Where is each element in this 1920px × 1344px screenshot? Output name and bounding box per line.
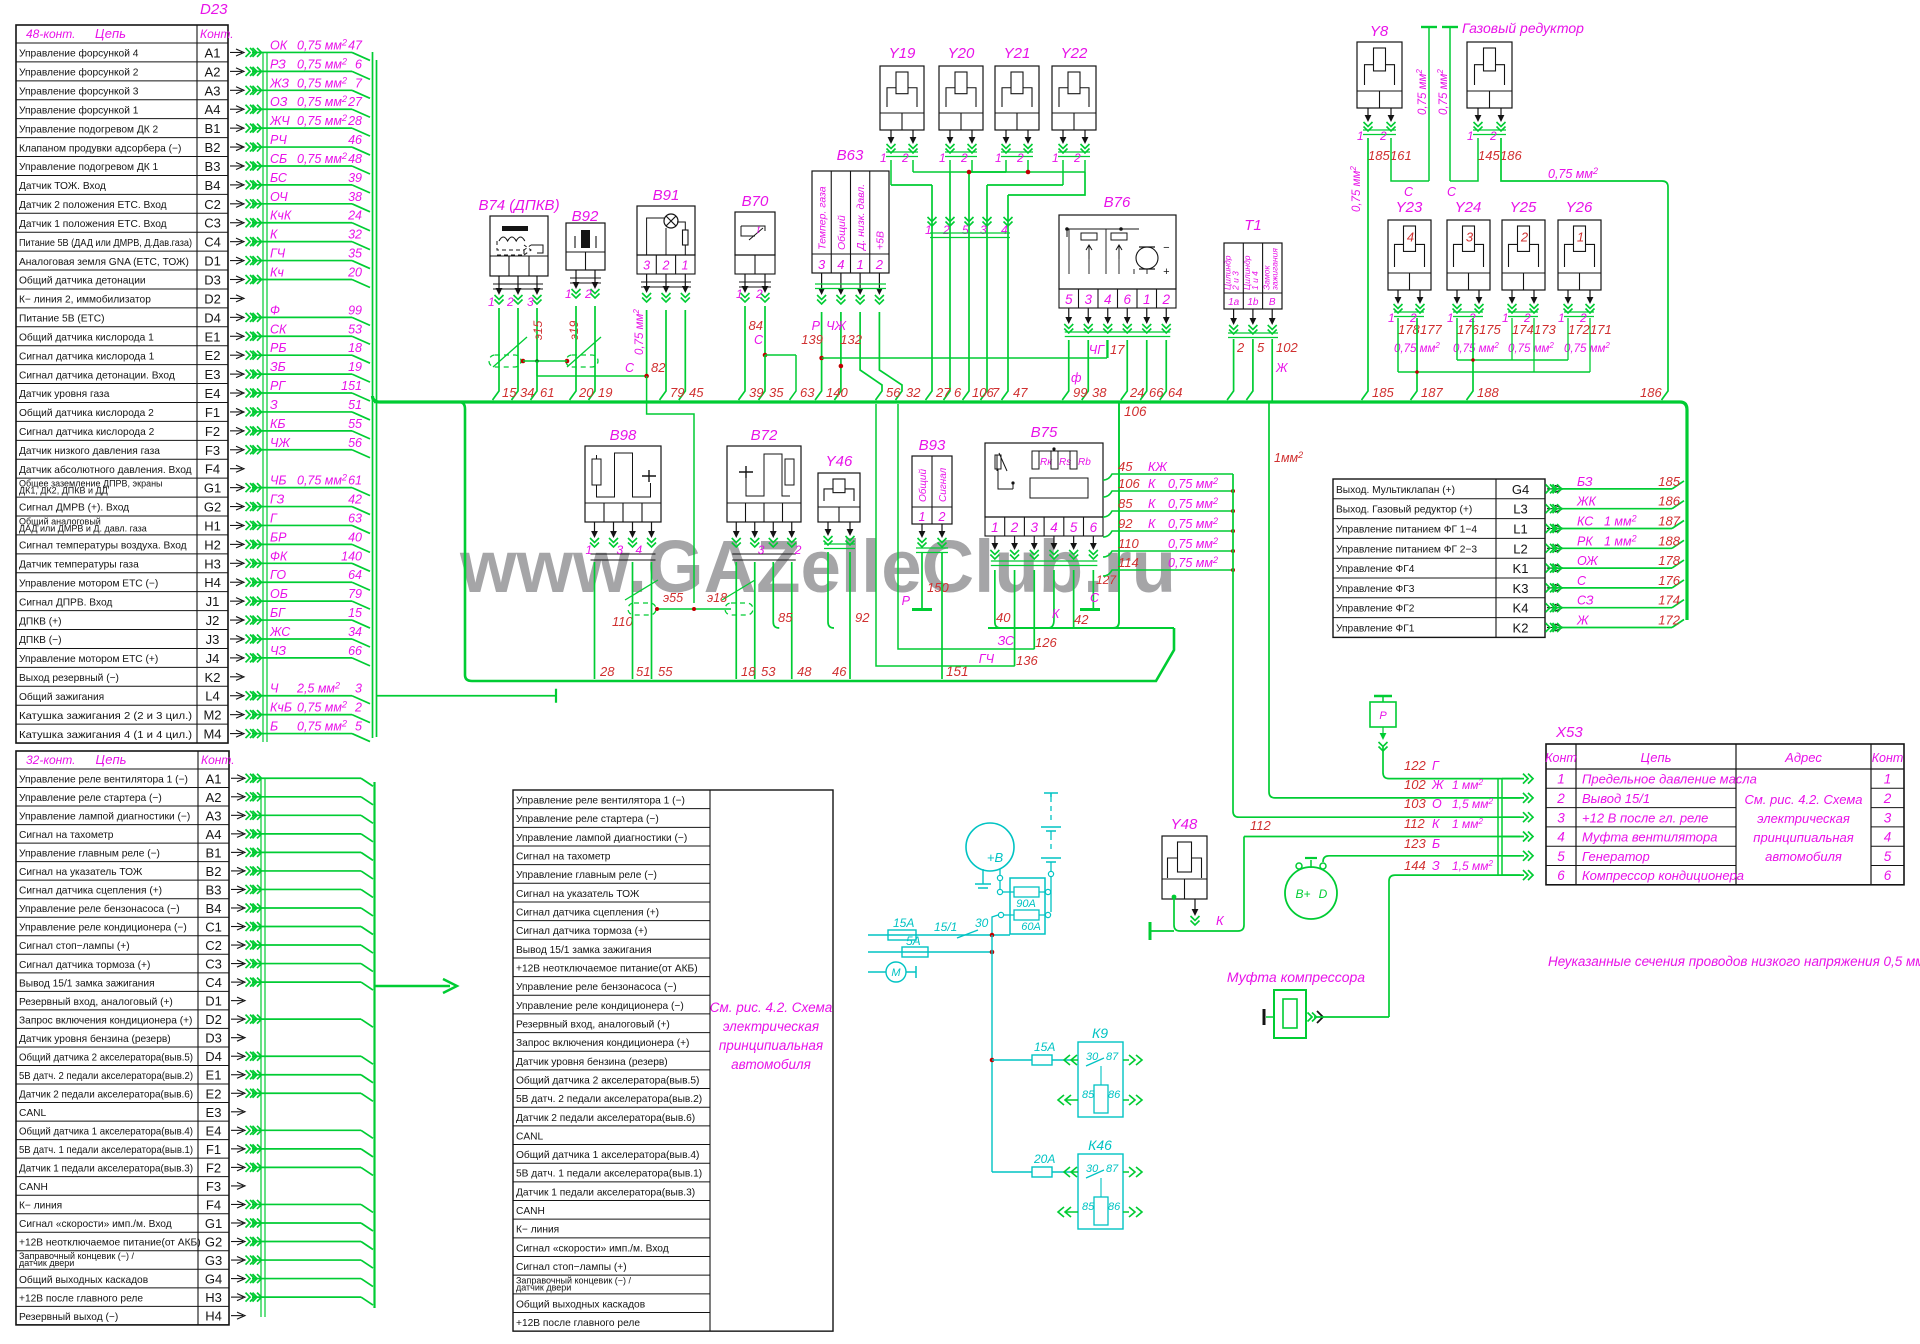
svg-text:27: 27: [347, 95, 363, 109]
svg-text:48: 48: [797, 664, 812, 679]
svg-text:+12В неотключаемое питание(от: +12В неотключаемое питание(от АКБ): [19, 1238, 201, 1249]
svg-text:1: 1: [1143, 292, 1151, 307]
svg-text:D2: D2: [204, 291, 221, 306]
svg-text:5: 5: [1257, 340, 1265, 355]
svg-text:Управление лампой диагностики: Управление лампой диагностики (−): [19, 812, 190, 823]
svg-text:РБ: РБ: [270, 341, 286, 355]
svg-text:34: 34: [520, 385, 534, 400]
main cyan vertical: [991, 935, 993, 1172]
svg-text:Y23: Y23: [1396, 199, 1423, 216]
svg-text:32-конт.: 32-конт.: [26, 753, 75, 767]
svg-text:Управление реле стартера (−): Управление реле стартера (−): [19, 793, 162, 804]
svg-text:D1: D1: [204, 254, 221, 269]
svg-text:61: 61: [540, 385, 554, 400]
svg-text:Р: Р: [902, 594, 911, 608]
relay K9: [992, 1059, 1072, 1061]
svg-text:Y20: Y20: [948, 45, 975, 62]
svg-text:H3: H3: [204, 556, 221, 571]
svg-text:51: 51: [636, 664, 650, 679]
gas injector Y25: [1502, 220, 1545, 290]
svg-text:К: К: [1216, 913, 1225, 928]
svg-text:38: 38: [1092, 385, 1107, 400]
svg-text:E2: E2: [206, 1086, 222, 1101]
svg-text:Резервный вход, аналоговый (+): Резервный вход, аналоговый (+): [516, 1019, 670, 1030]
svg-text:0,75 мм2: 0,75 мм2: [297, 700, 347, 715]
svg-text:0,75 мм2: 0,75 мм2: [297, 113, 347, 128]
B92 wires to bus: [570, 306, 577, 400]
svg-text:A4: A4: [205, 102, 221, 117]
ground (top, left): [1428, 27, 1430, 181]
svg-text:К− линия 2, иммобилизатор: К− линия 2, иммобилизатор: [19, 294, 151, 306]
svg-text:4: 4: [837, 257, 844, 272]
svg-text:87: 87: [1106, 1163, 1119, 1175]
svg-text:Датчик низкого давления газа: Датчик низкого давления газа: [19, 446, 160, 457]
svg-text:Датчик ТОЖ. Вход: Датчик ТОЖ. Вход: [19, 181, 106, 192]
svg-text:4: 4: [1884, 830, 1892, 845]
Y23-26 harness to bus: [1411, 318, 1418, 400]
svg-text:47: 47: [348, 38, 363, 52]
svg-text:зажигания: зажигания: [1269, 248, 1279, 291]
svg-text:Y22: Y22: [1061, 45, 1088, 62]
svg-text:A1: A1: [205, 45, 221, 60]
svg-text:Сигнал датчика кислорода 1: Сигнал датчика кислорода 1: [19, 351, 155, 362]
svg-text:C3: C3: [205, 957, 222, 972]
B91 wires to bus: [660, 310, 667, 400]
wire 102 Ж 1mm (to X53-2): [1271, 339, 1273, 402]
svg-text:46: 46: [832, 664, 847, 679]
svg-text:92: 92: [1118, 516, 1133, 531]
svg-text:Д. низк. давл.: Д. низк. давл.: [855, 184, 867, 251]
svg-text:60А: 60А: [1021, 921, 1041, 933]
svg-text:Датчик 1 педали акселератора(в: Датчик 1 педали акселератора(выв.3): [516, 1187, 695, 1198]
svg-text:Управление мотором ЕТС (−): Управление мотором ЕТС (−): [19, 578, 158, 589]
svg-text:Запрос включения кондиционера: Запрос включения кондиционера (+): [516, 1038, 689, 1049]
svg-text:+12В после главного реле: +12В после главного реле: [516, 1318, 640, 1329]
svg-text:3: 3: [527, 295, 534, 309]
svg-text:Сигнал датчика тормоза (+): Сигнал датчика тормоза (+): [516, 926, 647, 937]
svg-text:H2: H2: [204, 537, 221, 552]
svg-text:61: 61: [348, 474, 362, 488]
svg-text:1а: 1а: [1228, 297, 1240, 308]
svg-text:2: 2: [584, 287, 592, 301]
svg-text:87: 87: [1106, 1051, 1119, 1063]
reference table (see fig. 4.2): [513, 790, 833, 1331]
svg-text:M2: M2: [203, 708, 221, 723]
svg-text:90А: 90А: [1016, 898, 1036, 910]
oil pressure sensor P: [1374, 695, 1392, 698]
svg-text:92: 92: [855, 610, 870, 625]
svg-text:Питание 5В (ДАД или ДМРВ, Д.Да: Питание 5В (ДАД или ДМРВ, Д.Дав.газа): [19, 238, 192, 249]
svg-text:D4: D4: [205, 1049, 222, 1064]
svg-text:E3: E3: [205, 367, 221, 382]
svg-text:G1: G1: [205, 1216, 222, 1231]
svg-text:15: 15: [502, 385, 517, 400]
svg-text:32: 32: [348, 228, 362, 242]
svg-text:+: +: [1163, 266, 1170, 278]
svg-text:2: 2: [354, 701, 362, 715]
svg-text:Датчик 2 педали акселератора(в: Датчик 2 педали акселератора(выв.6): [516, 1113, 695, 1124]
svg-text:Цепь: Цепь: [96, 752, 127, 767]
svg-text:151: 151: [341, 379, 362, 393]
svg-text:Выход резервный (−): Выход резервный (−): [19, 673, 119, 684]
sensor B70 (temperature): [735, 212, 775, 255]
svg-text:Управление форсункой 4: Управление форсункой 4: [19, 48, 139, 60]
gas injector Y23: [1388, 220, 1431, 290]
svg-text:24: 24: [1129, 385, 1144, 400]
svg-text:Общий датчика 2 акселератора(в: Общий датчика 2 акселератора(выв.5): [516, 1074, 699, 1086]
svg-text:7: 7: [355, 76, 363, 90]
svg-text:К− линия: К− линия: [19, 1201, 62, 1212]
svg-text:Сигнал стоп−лампы (+): Сигнал стоп−лампы (+): [516, 1262, 627, 1273]
svg-text:150: 150: [927, 580, 949, 595]
svg-text:99: 99: [348, 303, 362, 317]
svg-text:2: 2: [506, 295, 514, 309]
sensor B98 (oxygen sensor 1): [585, 446, 661, 522]
svg-text:40: 40: [348, 530, 362, 544]
svg-text:47: 47: [1013, 385, 1028, 400]
svg-text:B3: B3: [206, 882, 222, 897]
svg-text:175: 175: [1479, 322, 1501, 337]
svg-text:D1: D1: [205, 994, 222, 1009]
svg-text:К: К: [1148, 517, 1156, 531]
svg-text:48-конт.: 48-конт.: [26, 27, 75, 41]
svg-text:Общий: Общий: [836, 215, 848, 250]
svg-text:Управление подогревом ДК 1: Управление подогревом ДК 1: [19, 162, 159, 173]
svg-text:Предельное давление масла: Предельное давление масла: [1582, 772, 1757, 787]
svg-text:+12В неотключаемое питание(от: +12В неотключаемое питание(от АКБ): [516, 963, 698, 974]
svg-text:140: 140: [341, 549, 362, 563]
relay K46: [992, 1171, 1072, 1173]
svg-text:К: К: [1148, 477, 1156, 491]
valve Y8: [1357, 42, 1402, 108]
svg-text:J1: J1: [206, 594, 220, 609]
svg-text:В+: В+: [1295, 887, 1310, 901]
wire 186 to bus: [1501, 138, 1668, 400]
svg-text:Общий выходных каскадов: Общий выходных каскадов: [19, 1274, 148, 1286]
svg-text:www.GAZelleClub.ru: www.GAZelleClub.ru: [459, 525, 1176, 608]
svg-text:1: 1: [682, 259, 689, 273]
svg-text:С: С: [1577, 574, 1587, 588]
svg-text:Катушка зажигания 2 (2 и 3 ц: Катушка зажигания 2 (2 и 3 цил.): [19, 711, 192, 722]
svg-text:Клапаном продувки адсорбера (−: Клапаном продувки адсорбера (−): [19, 142, 181, 154]
svg-text:E2: E2: [205, 348, 221, 363]
svg-text:Y19: Y19: [889, 45, 916, 62]
svg-text:ДАД или ДМРВ и Д. давл. газа: ДАД или ДМРВ и Д. давл. газа: [19, 523, 147, 533]
svg-text:173: 173: [1534, 322, 1556, 337]
svg-text:85: 85: [1082, 1089, 1095, 1101]
svg-text:0,75 мм2: 0,75 мм2: [1453, 341, 1499, 355]
svg-text:Управление главным реле (−): Управление главным реле (−): [19, 849, 160, 860]
injector Y20: [939, 66, 983, 130]
svg-text:ОЗ: ОЗ: [270, 95, 288, 109]
svg-text:E4: E4: [206, 1123, 222, 1138]
B75 pin wires: [995, 570, 1001, 628]
gas reducer connector: [1467, 42, 1512, 108]
svg-text:Rs: Rs: [1059, 457, 1071, 468]
svg-text:КЖ: КЖ: [1148, 460, 1168, 474]
B74 wires to bus: [493, 308, 500, 400]
svg-text:L1: L1: [1513, 522, 1527, 537]
svg-text:102: 102: [1276, 340, 1298, 355]
svg-text:БР: БР: [270, 530, 287, 544]
svg-text:Управление лампой диагностики: Управление лампой диагностики (−): [516, 833, 687, 844]
svg-text:Управление ФГ4: Управление ФГ4: [1336, 564, 1415, 575]
svg-text:Г: Г: [1432, 759, 1440, 773]
unit B76 (gas injectors rail unit): [1059, 215, 1176, 289]
svg-text:106: 106: [1124, 404, 1147, 419]
svg-text:КчК: КчК: [270, 209, 292, 223]
svg-text:Цепь: Цепь: [1641, 750, 1672, 765]
svg-text:1: 1: [1357, 129, 1364, 143]
svg-text:В: В: [1269, 297, 1276, 308]
main harness bus (top): [373, 396, 1688, 620]
svg-text:15/1: 15/1: [934, 920, 957, 934]
svg-text:B2: B2: [206, 864, 222, 879]
svg-text:Общий датчика 1 акселератора(в: Общий датчика 1 акселератора(выв.4): [516, 1149, 699, 1161]
svg-text:З: З: [270, 398, 278, 412]
svg-text:45: 45: [689, 385, 704, 400]
svg-text:+5В: +5В: [874, 231, 886, 250]
svg-text:2: 2: [1016, 151, 1024, 165]
svg-text:СБ: СБ: [270, 152, 287, 166]
svg-text:В93: В93: [919, 437, 946, 454]
svg-text:1: 1: [1577, 229, 1584, 244]
svg-text:Газовый редуктор: Газовый редуктор: [1462, 20, 1584, 36]
svg-text:0,75 мм2: 0,75 мм2: [297, 151, 347, 166]
wire 123 Б from generator: [1323, 856, 1520, 862]
svg-text:F2: F2: [205, 424, 220, 439]
injector Y22: [1052, 66, 1096, 130]
svg-text:0,75 мм2: 0,75 мм2: [1508, 341, 1554, 355]
svg-text:2: 2: [1161, 292, 1170, 307]
svg-text:0,75 мм2: 0,75 мм2: [1564, 341, 1610, 355]
svg-text:Общий датчика 2 акселератора(в: Общий датчика 2 акселератора(выв.5): [19, 1051, 193, 1063]
svg-text:Управление реле кондиционера (: Управление реле кондиционера (−): [19, 923, 187, 934]
svg-text:C2: C2: [204, 197, 221, 212]
svg-text:Датчик 2 педали акселератора(в: Датчик 2 педали акселератора(выв.6): [19, 1089, 193, 1100]
svg-text:D23: D23: [200, 1, 228, 18]
svg-text:114: 114: [1118, 555, 1139, 570]
svg-text:автомобиля: автомобиля: [731, 1057, 811, 1072]
svg-text:30: 30: [975, 916, 989, 930]
svg-text:K2: K2: [205, 670, 221, 685]
svg-text:э18: э18: [707, 591, 727, 605]
wire ЗС 126: [898, 404, 1035, 649]
svg-text:2: 2: [662, 259, 670, 273]
svg-text:6: 6: [1884, 868, 1892, 883]
svg-text:0,75 мм2: 0,75 мм2: [1436, 69, 1450, 115]
svg-text:Муфта вентилятора: Муфта вентилятора: [1582, 830, 1717, 845]
svg-text:CANH: CANH: [19, 1182, 48, 1193]
svg-text:2: 2: [755, 287, 763, 301]
svg-text:CANL: CANL: [516, 1131, 544, 1142]
generator: [1285, 867, 1337, 919]
branch 106 vertical: [1113, 402, 1119, 628]
svg-text:Общий датчика кислорода 2: Общий датчика кислорода 2: [19, 407, 154, 419]
svg-text:Управление главным реле (−): Управление главным реле (−): [516, 870, 657, 881]
svg-text:F3: F3: [206, 1179, 221, 1194]
svg-text:+12В после главного реле: +12В после главного реле: [19, 1293, 143, 1304]
svg-text:Ж: Ж: [1275, 361, 1289, 375]
svg-text:63: 63: [800, 385, 815, 400]
svg-text:К: К: [1052, 607, 1060, 621]
svg-text:56: 56: [348, 436, 362, 450]
svg-text:6: 6: [954, 385, 962, 400]
svg-text:4: 4: [1001, 223, 1008, 237]
svg-text:139: 139: [801, 332, 823, 347]
svg-text:187: 187: [1658, 514, 1680, 529]
svg-text:Резервный вход, аналоговый (+): Резервный вход, аналоговый (+): [19, 997, 173, 1008]
svg-text:4: 4: [1104, 292, 1112, 307]
X32 harness exit arrow: [375, 985, 451, 987]
svg-text:3: 3: [1466, 229, 1474, 244]
svg-text:ДК1, ДК2, ДПКВ и ДД: ДК1, ДК2, ДПКВ и ДД: [19, 486, 108, 496]
svg-text:Управление ФГ2: Управление ФГ2: [1336, 604, 1415, 615]
svg-text:C2: C2: [205, 938, 222, 953]
svg-text:1: 1: [1884, 772, 1892, 787]
svg-text:См. рис. 4.2. Схема: См. рис. 4.2. Схема: [710, 1000, 833, 1015]
svg-text:K4: K4: [1513, 601, 1529, 616]
svg-text:Аналоговая земля GNA (ЕТС, ТОЖ: Аналоговая земля GNA (ЕТС, ТОЖ): [19, 257, 189, 268]
svg-text:Вывод 15/1 замка зажигания: Вывод 15/1 замка зажигания: [19, 978, 155, 989]
svg-text:1: 1: [1557, 772, 1565, 787]
svg-text:В72: В72: [751, 427, 778, 444]
svg-text:Х53: Х53: [1555, 724, 1583, 741]
svg-text:0,75 мм2: 0,75 мм2: [1415, 69, 1429, 115]
svg-text:СК: СК: [270, 322, 287, 336]
svg-text:Y25: Y25: [1510, 199, 1537, 216]
svg-text:K2: K2: [1513, 621, 1529, 636]
svg-text:электрическая: электрическая: [1757, 811, 1850, 826]
svg-text:55: 55: [658, 664, 673, 679]
svg-text:З: З: [1432, 859, 1440, 873]
svg-text:Конт.: Конт.: [200, 27, 234, 41]
valve Y46: [818, 473, 860, 522]
Y8 wire 161 to ground: [1391, 138, 1429, 181]
svg-text:С: С: [1404, 185, 1414, 199]
svg-text:автомобиля: автомобиля: [1765, 849, 1842, 864]
svg-text:176: 176: [1457, 322, 1479, 337]
svg-text:ДПКВ (−): ДПКВ (−): [19, 635, 62, 646]
svg-text:1: 1: [586, 543, 593, 557]
svg-text:C3: C3: [204, 216, 221, 231]
sensor B92: [566, 223, 605, 270]
svg-text:122: 122: [1404, 758, 1426, 773]
svg-text:1: 1: [857, 257, 864, 272]
svg-text:A3: A3: [205, 83, 221, 98]
svg-text:ОЧ: ОЧ: [270, 190, 288, 204]
svg-text:0,75 мм2: 0,75 мм2: [632, 309, 646, 355]
svg-text:3: 3: [818, 257, 826, 272]
X53 feed wires: [1523, 774, 1533, 784]
svg-text:19: 19: [348, 360, 362, 374]
svg-text:2: 2: [875, 257, 884, 272]
reducer wire 145 to ground: [1450, 138, 1478, 181]
svg-text:51: 51: [348, 398, 362, 412]
svg-text:34: 34: [348, 625, 362, 639]
svg-text:принципиальная: принципиальная: [719, 1038, 823, 1053]
svg-text:ЧБ: ЧБ: [270, 474, 287, 488]
svg-text:+12 В после гл. реле: +12 В после гл. реле: [1582, 810, 1708, 825]
svg-text:186: 186: [1658, 494, 1680, 509]
wire 17 ЧГ (B63 pin3 to B76): [822, 357, 1107, 359]
svg-text:53: 53: [761, 664, 776, 679]
svg-text:K3: K3: [1513, 581, 1529, 596]
svg-text:187: 187: [1421, 385, 1443, 400]
svg-text:С: С: [1447, 185, 1457, 199]
svg-text:84: 84: [749, 318, 763, 333]
svg-text:1: 1: [1052, 151, 1059, 165]
svg-text:Управление подогревом ДК 2: Управление подогревом ДК 2: [19, 124, 159, 135]
svg-text:D2: D2: [205, 1012, 222, 1027]
svg-text:2: 2: [1556, 791, 1565, 806]
svg-text:1: 1: [488, 295, 495, 309]
svg-text:140: 140: [826, 385, 848, 400]
svg-text:В98: В98: [610, 427, 637, 444]
svg-text:186: 186: [1500, 148, 1522, 163]
svg-text:A4: A4: [206, 827, 222, 842]
svg-text:20: 20: [347, 266, 362, 280]
svg-text:4: 4: [1407, 229, 1414, 244]
svg-text:0,75 мм2: 0,75 мм2: [297, 94, 347, 109]
svg-text:B1: B1: [205, 121, 221, 136]
svg-text:79: 79: [348, 587, 362, 601]
svg-text:1,5 мм2: 1,5 мм2: [1452, 859, 1493, 873]
gas injector Y26: [1558, 220, 1601, 290]
svg-text:19: 19: [598, 385, 612, 400]
svg-text:39: 39: [348, 171, 362, 185]
svg-text:Общий выходных каскадов: Общий выходных каскадов: [516, 1298, 645, 1310]
svg-text:188: 188: [1658, 533, 1680, 548]
svg-text:ОБ: ОБ: [270, 587, 288, 601]
svg-text:Общий датчика детонации: Общий датчика детонации: [19, 275, 146, 287]
svg-text:132: 132: [840, 332, 862, 347]
wire 112 К from Y48: [1244, 836, 1520, 838]
svg-text:Управление ФГ3: Управление ФГ3: [1336, 584, 1415, 595]
svg-text:85: 85: [778, 610, 793, 625]
B93 pin2 wire 151: [941, 552, 943, 679]
svg-text:0,75 мм2: 0,75 мм2: [1349, 166, 1363, 212]
svg-text:66: 66: [348, 644, 362, 658]
svg-text:Управление форсункой 1: Управление форсункой 1: [19, 104, 139, 116]
svg-text:ЧЗ: ЧЗ: [270, 644, 286, 658]
fuse 15A + ignition switch 15/1-30: [868, 934, 1010, 936]
svg-text:53: 53: [348, 322, 362, 336]
D23 harness: row output wires: [230, 51, 242, 53]
svg-text:−: −: [1163, 242, 1170, 254]
B98 wires to lower bus: [594, 562, 596, 679]
svg-text:4: 4: [1557, 830, 1565, 845]
svg-text:B1: B1: [206, 845, 222, 860]
svg-text:5: 5: [1884, 849, 1892, 864]
wire L4 ignition common to terminator: [376, 695, 556, 697]
svg-text:2: 2: [794, 543, 802, 557]
svg-text:15А: 15А: [1034, 1040, 1055, 1054]
svg-text:2: 2: [1010, 520, 1019, 535]
svg-text:Управление реле вентилятора 1: Управление реле вентилятора 1 (−): [19, 774, 188, 785]
svg-text:2: 2: [942, 223, 950, 237]
svg-text:5В датч. 2 педали акселератора: 5В датч. 2 педали акселератора(выв.2): [19, 1071, 193, 1082]
svg-text:К: К: [1148, 497, 1156, 511]
svg-text:6: 6: [1090, 520, 1098, 535]
svg-text:Сигнал ДМРВ (+). Вход: Сигнал ДМРВ (+). Вход: [19, 503, 129, 514]
svg-text:Датчик температуры газа: Датчик температуры газа: [19, 560, 139, 571]
svg-text:A1: A1: [206, 771, 222, 786]
svg-text:46: 46: [348, 133, 362, 147]
svg-text:В91: В91: [653, 187, 680, 204]
svg-text:Управление реле стартера (−): Управление реле стартера (−): [516, 814, 659, 825]
svg-text:Сигнал стоп−лампы (+): Сигнал стоп−лампы (+): [19, 941, 130, 952]
